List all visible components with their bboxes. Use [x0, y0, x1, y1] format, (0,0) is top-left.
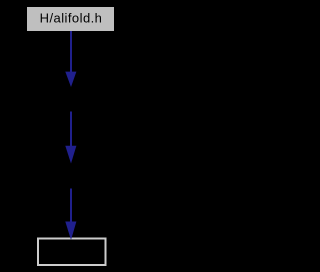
wire edge 3 arrowhead: [65, 222, 76, 241]
wire edge 2 arrowhead: [65, 146, 76, 164]
wire edge 2 shaft: [70, 112, 72, 148]
wire edge 3 shaft: [70, 189, 72, 224]
node bottom (outlined box): [38, 239, 106, 266]
node H/alifold.h (current file, grey filled): [27, 7, 114, 31]
svg-text:H/alifold.h: H/alifold.h: [40, 11, 103, 26]
wire edge 1 shaft: [70, 31, 72, 73]
wire edge 1 arrowhead: [65, 72, 76, 87]
